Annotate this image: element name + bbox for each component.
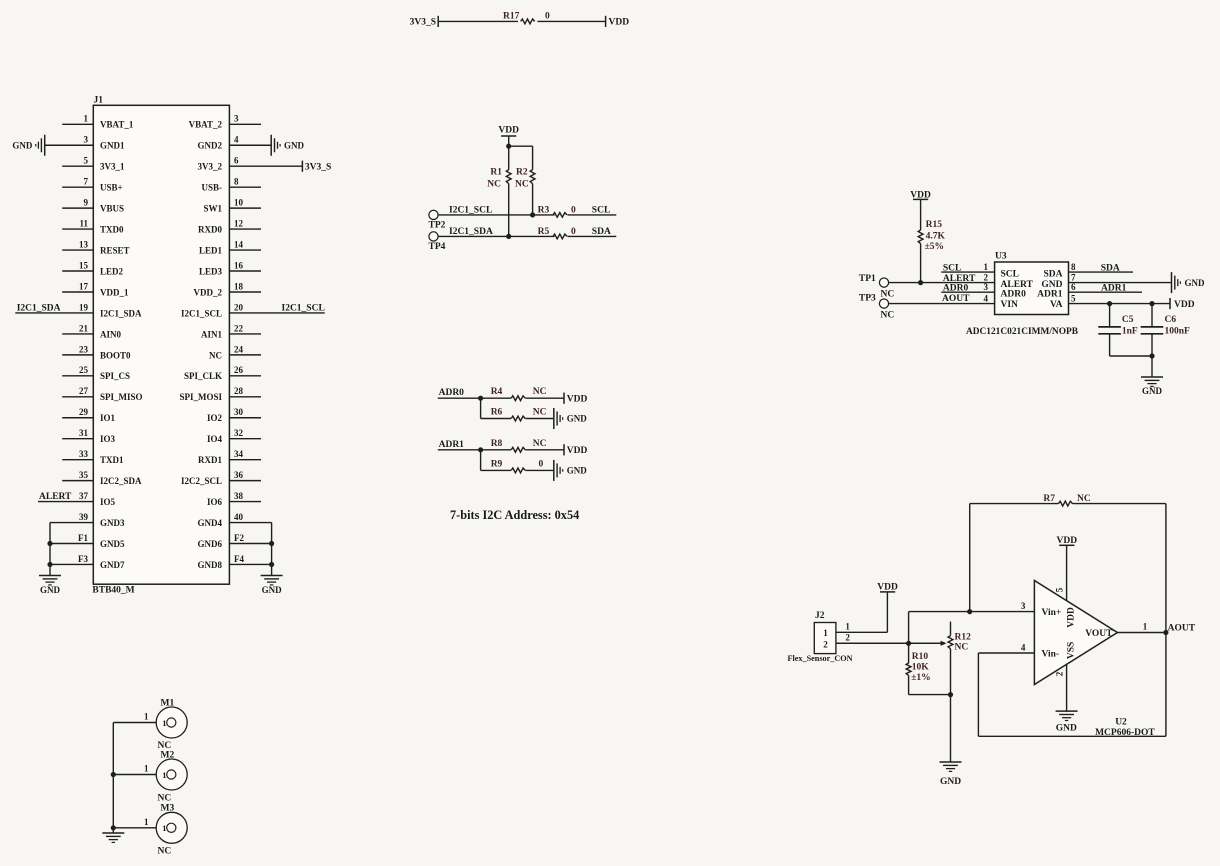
wire J1 pin 22 xyxy=(229,333,261,335)
svg-text:VSS: VSS xyxy=(1067,642,1077,659)
svg-text:36: 36 xyxy=(234,470,244,480)
svg-text:3V3_1: 3V3_1 xyxy=(100,162,125,172)
svg-text:21: 21 xyxy=(79,323,89,333)
wire feedback bottom xyxy=(978,735,1166,737)
svg-text:SCL: SCL xyxy=(1001,270,1019,280)
svg-text:I2C1_SCL: I2C1_SCL xyxy=(181,308,222,318)
wire J1 pin 9 xyxy=(62,207,93,209)
wire R5 to SDA xyxy=(568,235,617,237)
op-amp U2 body xyxy=(1034,581,1117,685)
wire VDD to R2 branch xyxy=(509,145,533,147)
svg-text:IO2: IO2 xyxy=(207,413,223,423)
svg-text:4: 4 xyxy=(234,135,239,145)
svg-text:2: 2 xyxy=(823,640,828,650)
resistor R5 (0) xyxy=(553,234,567,239)
wire J1 pin 37 xyxy=(38,501,93,503)
capacitor C6 100nF xyxy=(1151,304,1153,327)
svg-text:ADR1: ADR1 xyxy=(1101,283,1127,293)
ground symbol (C5 C6) xyxy=(1141,376,1163,378)
svg-text:GND: GND xyxy=(567,414,588,424)
svg-text:C6: C6 xyxy=(1165,315,1177,325)
wire M1 pin 1 xyxy=(113,722,156,724)
svg-text:NC: NC xyxy=(487,180,501,190)
wire R1 to I2C1_SDA xyxy=(508,184,510,237)
wire mounting hole ground bus xyxy=(112,723,114,834)
wire Vin+ to U2 pin 3 xyxy=(909,611,1035,613)
svg-text:C5: C5 xyxy=(1122,315,1134,325)
svg-text:VBUS: VBUS xyxy=(100,204,124,214)
svg-text:GND: GND xyxy=(40,585,61,595)
wire ADR0 to U3 pin 3 xyxy=(941,291,994,293)
svg-text:8: 8 xyxy=(234,177,239,187)
wire J1 pin 35 xyxy=(62,480,93,482)
wire R15 to ALERT xyxy=(920,244,922,283)
svg-text:VDD_2: VDD_2 xyxy=(194,287,223,297)
wire J1 pin 18 xyxy=(229,291,261,293)
trimmer R12 (NC) body xyxy=(950,622,952,636)
svg-text:GND: GND xyxy=(1142,386,1163,396)
svg-text:ADC121C021CIMM/NOPB: ADC121C021CIMM/NOPB xyxy=(966,327,1078,337)
mounting hole M1 body xyxy=(156,707,187,738)
svg-text:R5: R5 xyxy=(538,227,550,237)
wire U3 pin 5 VA to VDD xyxy=(1069,303,1171,305)
svg-text:IO4: IO4 xyxy=(207,434,223,444)
resistor R4 (NC) xyxy=(511,396,525,401)
svg-text:F1: F1 xyxy=(78,533,88,543)
svg-text:ADR1: ADR1 xyxy=(1037,290,1063,300)
resistor R9 (0) xyxy=(511,468,525,473)
svg-text:VBAT_2: VBAT_2 xyxy=(189,120,223,130)
wire feedback top xyxy=(970,503,1059,505)
wire I2C1_SDA xyxy=(438,235,554,237)
svg-text:NC: NC xyxy=(158,741,172,751)
wire J1 pin 16 xyxy=(229,270,261,272)
junction feedback/Vin+ xyxy=(967,609,972,614)
svg-text:2: 2 xyxy=(1055,671,1065,676)
svg-text:GND: GND xyxy=(12,141,33,151)
junction C6 gnd xyxy=(1149,353,1154,358)
wire Vin- to U2 pin 4 xyxy=(978,652,1034,654)
wire 3V3_S to R17 xyxy=(438,20,518,22)
svg-text:3: 3 xyxy=(1021,601,1026,611)
wire J1 pin 6 xyxy=(229,165,302,167)
svg-text:6: 6 xyxy=(1071,282,1076,292)
wire feedback right down xyxy=(1165,504,1167,737)
svg-text:2: 2 xyxy=(984,272,989,282)
svg-text:28: 28 xyxy=(234,386,244,396)
svg-text:SPI_MISO: SPI_MISO xyxy=(100,392,143,402)
svg-text:11: 11 xyxy=(79,219,88,229)
svg-text:J1: J1 xyxy=(94,96,104,106)
svg-text:18: 18 xyxy=(234,281,244,291)
ground symbol (R10 R12) xyxy=(940,761,962,763)
svg-text:7-bits I2C Address: 0x54: 7-bits I2C Address: 0x54 xyxy=(450,508,579,522)
svg-text:R8: R8 xyxy=(491,439,503,449)
svg-text:IO3: IO3 xyxy=(100,434,116,444)
ground symbol U3 pin 7 xyxy=(1171,272,1173,293)
svg-text:GND: GND xyxy=(567,466,588,476)
power VDD flag (R8) xyxy=(563,444,565,455)
svg-text:GND6: GND6 xyxy=(198,539,223,549)
wire C5 bottom xyxy=(1109,334,1111,356)
connector J2 body xyxy=(814,623,836,654)
svg-text:ADR0: ADR0 xyxy=(943,283,969,293)
IC U3 body xyxy=(995,262,1069,315)
node 3V3_S flag xyxy=(437,16,439,27)
wire J1 pin F3 xyxy=(50,563,93,565)
testpoint TP4 xyxy=(429,232,438,241)
svg-text:1: 1 xyxy=(162,718,166,728)
junction M2 xyxy=(111,772,116,777)
ground symbol J1 right xyxy=(261,575,283,577)
svg-text:NC: NC xyxy=(533,408,547,418)
svg-text:M1: M1 xyxy=(161,699,175,709)
svg-text:±1%: ±1% xyxy=(911,673,930,683)
svg-text:NC: NC xyxy=(881,289,895,299)
svg-text:U3: U3 xyxy=(995,251,1007,261)
svg-text:NC: NC xyxy=(955,642,969,652)
svg-text:GND: GND xyxy=(284,141,305,151)
svg-text:R15: R15 xyxy=(926,220,943,230)
wire J1 pin 32 xyxy=(229,438,261,440)
wire feedback left up to Vin- xyxy=(977,653,979,736)
svg-text:BOOT0: BOOT0 xyxy=(100,350,131,360)
svg-text:31: 31 xyxy=(79,428,89,438)
svg-text:3: 3 xyxy=(984,282,989,292)
node 3V3_S flag at J1 pin 6 xyxy=(301,161,303,172)
testpoint TP1 xyxy=(879,278,888,287)
wire TP3/AOUT to U3 pin 4 xyxy=(889,303,995,305)
wire J1 pin 3 xyxy=(45,144,94,146)
svg-text:1nF: 1nF xyxy=(1122,327,1138,337)
svg-text:1: 1 xyxy=(845,622,850,632)
svg-text:1: 1 xyxy=(84,114,89,124)
wire R10 bottom xyxy=(908,675,910,694)
wire J1 pin 7 xyxy=(62,186,93,188)
svg-text:1: 1 xyxy=(162,823,166,833)
svg-text:NC: NC xyxy=(1077,494,1091,504)
connector J1 body xyxy=(93,105,229,584)
svg-text:40: 40 xyxy=(234,512,244,522)
svg-text:M3: M3 xyxy=(161,804,175,814)
svg-text:SPI_MOSI: SPI_MOSI xyxy=(179,392,222,402)
svg-text:VDD_1: VDD_1 xyxy=(100,287,129,297)
svg-text:1: 1 xyxy=(1143,621,1148,631)
svg-text:34: 34 xyxy=(234,449,244,459)
svg-text:ALERT: ALERT xyxy=(39,492,72,502)
svg-text:ADR1: ADR1 xyxy=(439,440,465,450)
svg-text:VDD: VDD xyxy=(1174,300,1195,310)
resistor R2 (NC) xyxy=(530,170,535,184)
wire branch ADR0 down xyxy=(480,398,482,418)
junction VDD split xyxy=(506,144,511,149)
wire J1 pins 39-F1-F3 ground bus xyxy=(49,523,51,576)
svg-text:24: 24 xyxy=(234,344,244,354)
wire R6 to GND xyxy=(525,418,553,420)
junction F1 xyxy=(47,541,52,546)
svg-text:I2C1_SCL: I2C1_SCL xyxy=(449,205,492,215)
junction AOUT xyxy=(1163,630,1168,635)
testpoint TP2 xyxy=(429,210,438,219)
wire U3 pin 7 GND xyxy=(1069,282,1172,284)
svg-text:NC: NC xyxy=(533,387,547,397)
svg-text:Flex_Sensor_CON: Flex_Sensor_CON xyxy=(788,654,853,663)
resistor R7 (NC) xyxy=(1059,501,1073,506)
wire J1 pin 38 xyxy=(229,501,261,503)
svg-text:IO1: IO1 xyxy=(100,413,116,423)
wire SCL to U3 pin 1 xyxy=(941,271,994,273)
wire J1 pin F4 xyxy=(229,563,271,565)
ground symbol (R6) xyxy=(553,408,555,429)
wire J1 pin 36 xyxy=(229,480,261,482)
wire branch ADR1 down xyxy=(480,450,482,471)
svg-text:R9: R9 xyxy=(491,459,503,469)
svg-text:Vin-: Vin- xyxy=(1042,649,1060,659)
svg-text:NC: NC xyxy=(533,439,547,449)
svg-text:5: 5 xyxy=(1071,293,1076,303)
svg-text:SCL: SCL xyxy=(943,263,961,273)
wire J1 pin 1 xyxy=(62,123,93,125)
svg-text:1: 1 xyxy=(144,817,149,827)
svg-text:3V3_S: 3V3_S xyxy=(305,163,331,173)
wire J1 pin 28 xyxy=(229,396,261,398)
svg-text:RXD1: RXD1 xyxy=(198,455,222,465)
resistor R10 10K xyxy=(908,643,910,663)
resistor R17 xyxy=(521,19,535,24)
svg-text:GND8: GND8 xyxy=(198,560,223,570)
svg-text:TP3: TP3 xyxy=(859,294,876,304)
svg-text:ALERT: ALERT xyxy=(943,274,976,284)
wire J1 pin 10 xyxy=(229,207,261,209)
svg-text:VIN: VIN xyxy=(1001,300,1019,310)
wire J2 pin 2 xyxy=(836,642,942,644)
wire R2 to I2C1_SCL xyxy=(532,184,534,215)
resistor R3 (0) xyxy=(553,213,567,218)
wire I2C1_SCL xyxy=(438,214,554,216)
wire J1 pin 34 xyxy=(229,459,261,461)
svg-text:4: 4 xyxy=(1021,643,1026,653)
svg-text:TXD0: TXD0 xyxy=(100,225,124,235)
svg-text:3V3_S: 3V3_S xyxy=(410,18,436,28)
svg-text:USB-: USB- xyxy=(201,183,222,193)
ground symbol J1 left xyxy=(39,575,61,577)
svg-text:U2: U2 xyxy=(1115,718,1127,728)
svg-text:VDD: VDD xyxy=(498,126,519,136)
svg-text:TP1: TP1 xyxy=(859,274,876,284)
svg-text:NC: NC xyxy=(515,180,529,190)
svg-text:33: 33 xyxy=(79,449,89,459)
wire U3 pin 6 ADR1 xyxy=(1069,291,1143,293)
svg-text:1: 1 xyxy=(984,262,989,272)
svg-text:I2C1_SDA: I2C1_SDA xyxy=(100,308,142,318)
wire R8 to VDD xyxy=(525,449,564,451)
svg-text:5: 5 xyxy=(84,156,89,166)
junction R1/SDA xyxy=(506,234,511,239)
svg-text:10: 10 xyxy=(234,198,244,208)
svg-text:1: 1 xyxy=(144,764,149,774)
svg-text:GND7: GND7 xyxy=(100,560,125,570)
wire R4 to VDD xyxy=(525,397,564,399)
svg-text:I2C1_SCL: I2C1_SCL xyxy=(282,304,325,314)
svg-text:R6: R6 xyxy=(491,408,503,418)
svg-text:VDD: VDD xyxy=(1067,607,1077,628)
wire feedback up (Vin+) xyxy=(969,504,971,612)
svg-text:R4: R4 xyxy=(491,387,503,397)
capacitor C5 1nF xyxy=(1109,304,1111,327)
svg-text:1: 1 xyxy=(823,628,828,638)
svg-text:±5%: ±5% xyxy=(925,242,944,252)
resistor R6 (NC) xyxy=(511,416,525,421)
svg-text:R7: R7 xyxy=(1043,494,1055,504)
junction C6 xyxy=(1149,301,1154,306)
wire U3 pin 8 SDA xyxy=(1069,271,1134,273)
svg-text:I2C2_SCL: I2C2_SCL xyxy=(181,476,222,486)
svg-text:22: 22 xyxy=(234,323,244,333)
svg-text:100nF: 100nF xyxy=(1165,327,1191,337)
svg-text:1: 1 xyxy=(162,770,166,780)
wire ADR1 xyxy=(438,449,511,451)
wire R3 to SCL xyxy=(568,214,617,216)
testpoint TP3 xyxy=(879,299,888,308)
wire ADR0 xyxy=(438,397,511,399)
svg-text:Vin+: Vin+ xyxy=(1042,608,1062,618)
svg-text:NC: NC xyxy=(209,350,222,360)
svg-text:TP2: TP2 xyxy=(429,220,446,230)
wire J1 pin 27 xyxy=(62,396,93,398)
svg-text:17: 17 xyxy=(79,281,89,291)
wire VDD stem xyxy=(508,136,510,146)
svg-text:32: 32 xyxy=(234,428,244,438)
svg-text:F3: F3 xyxy=(78,554,88,564)
mounting hole M2 body xyxy=(156,759,187,790)
svg-text:0: 0 xyxy=(545,11,550,21)
svg-text:NC: NC xyxy=(881,310,895,320)
wire J1 pin 31 xyxy=(62,438,93,440)
junction C5 xyxy=(1107,301,1112,306)
wire J1 pin 39 xyxy=(50,522,93,524)
svg-text:RXD0: RXD0 xyxy=(198,225,222,235)
wire U2 pin 1 VOUT xyxy=(1117,632,1166,634)
mounting hole M3 body xyxy=(156,812,187,843)
junction J2 pin 2 xyxy=(906,641,911,646)
svg-text:R3: R3 xyxy=(538,205,550,215)
svg-text:I2C1_SDA: I2C1_SDA xyxy=(449,227,493,237)
wire U2 pin 2 VSS xyxy=(1066,664,1068,711)
wire J1 pin 20 xyxy=(229,312,324,314)
svg-text:VDD: VDD xyxy=(567,446,588,456)
wire J1 pin 33 xyxy=(62,459,93,461)
svg-text:6: 6 xyxy=(234,156,239,166)
wire J1 pin 26 xyxy=(229,375,261,377)
wire J1 pin 5 xyxy=(62,165,93,167)
svg-text:7: 7 xyxy=(84,177,89,187)
svg-text:2: 2 xyxy=(845,633,850,643)
svg-text:VDD: VDD xyxy=(609,18,630,28)
wire C6 bottom xyxy=(1151,334,1153,356)
wire R17 to VDD xyxy=(537,20,605,22)
svg-text:19: 19 xyxy=(79,302,89,312)
svg-text:3: 3 xyxy=(234,114,239,124)
svg-text:R2: R2 xyxy=(516,167,528,177)
junction R2/SCL xyxy=(530,212,535,217)
resistor R1 (NC) xyxy=(508,146,510,170)
wire J1 pin 12 xyxy=(229,228,261,230)
wire J1 pin 40 xyxy=(229,522,271,524)
wire J1 pin 4 xyxy=(229,144,271,146)
svg-text:R12: R12 xyxy=(955,633,972,643)
ground symbol (U2 VSS) xyxy=(1056,710,1078,712)
svg-text:SDA: SDA xyxy=(1101,263,1120,273)
wire J1 pin 14 xyxy=(229,249,261,251)
wire J1 pin 3 xyxy=(229,123,261,125)
svg-text:LED1: LED1 xyxy=(199,245,223,255)
resistor R8 (NC) xyxy=(511,447,525,452)
wire R7 to AOUT xyxy=(1073,503,1166,505)
wire J1 pin 11 xyxy=(62,228,93,230)
svg-text:9: 9 xyxy=(84,198,89,208)
svg-text:0: 0 xyxy=(571,227,576,237)
svg-text:13: 13 xyxy=(79,239,89,249)
wire J1 pin 8 xyxy=(229,186,261,188)
svg-text:VBAT_1: VBAT_1 xyxy=(100,120,134,130)
wire J1 pin F2 xyxy=(229,543,271,545)
svg-text:12: 12 xyxy=(234,219,244,229)
svg-text:GND: GND xyxy=(262,585,283,595)
svg-text:GND: GND xyxy=(1185,278,1206,288)
wire VDD stem (J2) xyxy=(886,592,888,632)
svg-text:3: 3 xyxy=(84,135,89,145)
svg-text:I2C1_SDA: I2C1_SDA xyxy=(17,304,61,314)
svg-text:7: 7 xyxy=(1071,272,1076,282)
svg-text:0: 0 xyxy=(539,459,544,469)
svg-text:GND3: GND3 xyxy=(100,518,125,528)
svg-text:SCL: SCL xyxy=(592,205,610,215)
svg-text:AOUT: AOUT xyxy=(942,294,970,304)
svg-text:23: 23 xyxy=(79,344,89,354)
svg-text:GND4: GND4 xyxy=(198,518,223,528)
wire J1 pin 25 xyxy=(62,375,93,377)
svg-text:TP4: TP4 xyxy=(429,242,446,252)
power VDD flag (R4) xyxy=(563,393,565,404)
wire J1 pin 23 xyxy=(62,354,93,356)
wire J1 pin 15 xyxy=(62,270,93,272)
svg-text:0: 0 xyxy=(571,205,576,215)
wire J2 pin 1 to VDD xyxy=(836,631,888,633)
wire to ground (C5 C6) xyxy=(1151,356,1153,377)
svg-text:1: 1 xyxy=(144,712,149,722)
wire J1 pin 19 xyxy=(15,312,93,314)
svg-text:5: 5 xyxy=(1055,587,1065,592)
svg-text:VDD: VDD xyxy=(567,395,588,405)
ground symbol at J1 pin 3 xyxy=(44,135,46,156)
svg-text:30: 30 xyxy=(234,407,244,417)
svg-text:25: 25 xyxy=(79,365,89,375)
svg-text:USB+: USB+ xyxy=(100,183,123,193)
svg-text:RESET: RESET xyxy=(100,245,130,255)
ground symbol at J1 pin 4 xyxy=(270,135,272,156)
svg-text:SPI_CLK: SPI_CLK xyxy=(184,371,222,381)
svg-text:ADR0: ADR0 xyxy=(439,388,465,398)
svg-text:39: 39 xyxy=(79,512,89,522)
svg-text:3V3_2: 3V3_2 xyxy=(198,162,223,172)
svg-text:8: 8 xyxy=(1071,262,1076,272)
svg-text:SDA: SDA xyxy=(1043,270,1062,280)
ground symbol (R9) xyxy=(553,460,555,481)
wire R9 to GND xyxy=(525,469,553,471)
ground symbol (mounting holes) xyxy=(102,832,124,834)
svg-text:AIN0: AIN0 xyxy=(100,329,122,339)
svg-text:I2C2_SDA: I2C2_SDA xyxy=(100,476,142,486)
